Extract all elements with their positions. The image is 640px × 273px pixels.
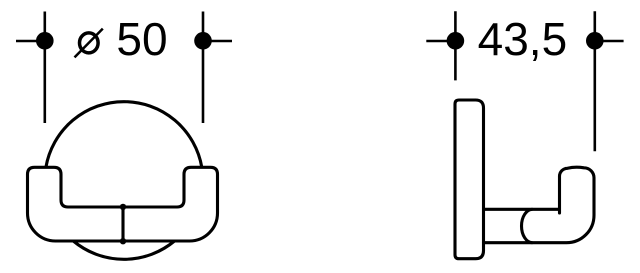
svg-text:43,5: 43,5 (478, 13, 568, 65)
svg-text:50: 50 (116, 13, 167, 65)
